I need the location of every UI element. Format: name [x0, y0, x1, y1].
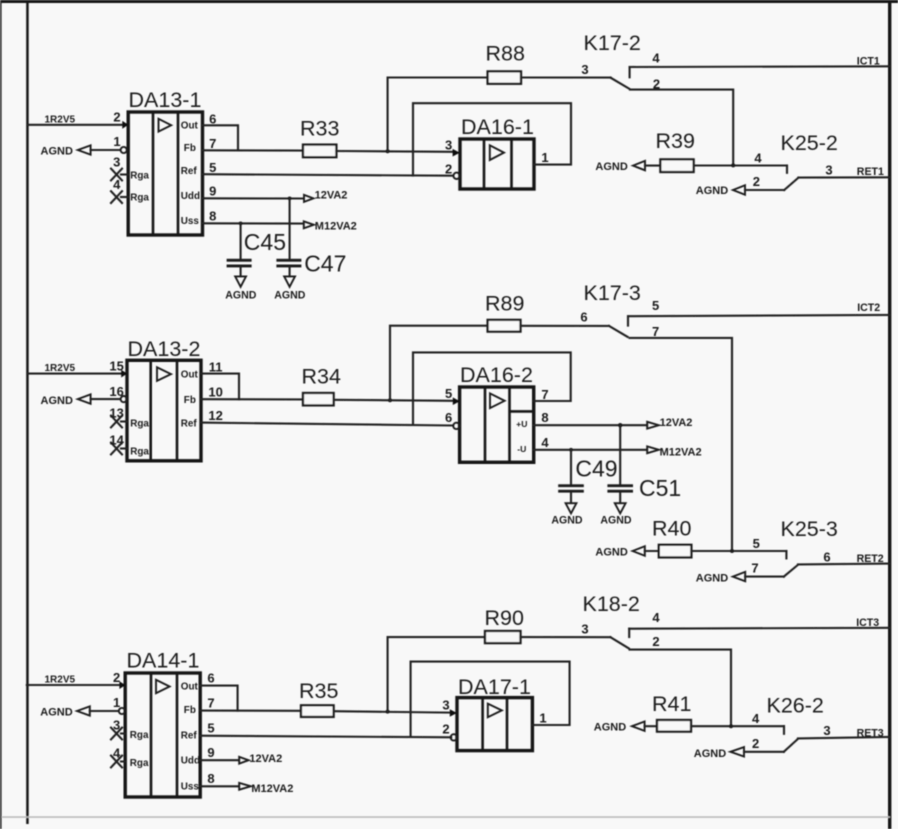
svg-text:RET3: RET3 [857, 727, 884, 739]
svg-text:Rga: Rga [130, 446, 149, 457]
wire R39 to K25-2 pin 4 [694, 150, 787, 173]
wire R41 to K26-2 pin 4 [691, 711, 784, 734]
node 1R2V5 wire to DA13-1 pin 2 [27, 110, 128, 129]
DA16-2 pin 5 input arrow [445, 386, 460, 405]
svg-text:12VA2: 12VA2 [249, 753, 282, 765]
DA13-1 pin 3 no-connect [111, 154, 128, 180]
svg-text:1: 1 [113, 134, 120, 149]
svg-text:1R2V5: 1R2V5 [45, 674, 76, 685]
resistor R35 [299, 679, 338, 717]
wire DA14-1 pin 9 Udd to 12VA2 [200, 745, 239, 760]
svg-text:1R2V5: 1R2V5 [45, 114, 76, 125]
svg-text:R40: R40 [652, 516, 691, 540]
svg-text:Udd: Udd [181, 191, 200, 202]
svg-text:R90: R90 [485, 606, 524, 630]
svg-text:Uss: Uss [181, 782, 200, 793]
op-amp U DA13-1 body [128, 88, 202, 235]
svg-text:Rga: Rga [130, 193, 149, 204]
wire DA13-2 pin 10 Fb to R34 [201, 385, 303, 400]
svg-text:AGND: AGND [225, 290, 257, 302]
wire DA16-2 pin 7 feedback loop [413, 352, 571, 424]
DA16-1 pin 2 inverting input [445, 161, 460, 179]
wire DA13-2 pin 11 Out down to Fb net [201, 359, 239, 399]
svg-text:10: 10 [208, 385, 222, 400]
node AGND wire to DA14-1 pin 1 [40, 695, 125, 718]
relay contact K25-2 [781, 131, 838, 190]
op-amp U DA14-1 body [125, 649, 200, 797]
svg-text:DA16-1: DA16-1 [461, 115, 534, 139]
svg-text:Out: Out [181, 681, 199, 692]
svg-text:K25-2: K25-2 [781, 131, 838, 155]
svg-text:C45: C45 [244, 229, 286, 255]
node AGND at K25-3 pin 7 [696, 561, 784, 585]
svg-text:3: 3 [113, 154, 120, 169]
node AGND at R39 [595, 161, 660, 173]
svg-text:5: 5 [445, 386, 452, 401]
svg-text:AGND: AGND [694, 748, 726, 760]
svg-text:7: 7 [652, 324, 659, 339]
svg-text:Rga: Rga [130, 758, 149, 769]
resistor R40 [652, 516, 691, 557]
wire Fb net up to R90 line [388, 637, 485, 712]
resistor R34 [302, 365, 341, 406]
svg-text:6: 6 [445, 410, 452, 425]
svg-text:6: 6 [823, 549, 830, 564]
svg-text:K26-2: K26-2 [767, 693, 824, 717]
resistor R39 [656, 129, 695, 172]
power flag M12VA2 (middle) [647, 446, 701, 458]
wire K17-3 pin 5 to ICT2 [628, 302, 890, 316]
wire R40 to K25-3 pin 5 [691, 536, 786, 559]
relay contact K17-3 [584, 281, 660, 339]
svg-text:2: 2 [445, 161, 452, 176]
svg-text:1: 1 [539, 710, 546, 725]
wire DA16-1 pin 1 feedback loop [413, 103, 571, 175]
svg-text:5: 5 [209, 160, 216, 175]
svg-text:7: 7 [751, 561, 758, 576]
svg-text:DA17-1: DA17-1 [458, 675, 531, 699]
ground AGND under C49 [551, 503, 583, 526]
DA13-2 pin 13 no-connect [109, 406, 127, 428]
wire K26-2 pin 3 to RET3 [798, 723, 890, 740]
ground AGND under C47 [274, 276, 306, 301]
DA17-1 pin 2 inverting input [442, 722, 457, 741]
svg-text:Ref: Ref [181, 731, 198, 742]
svg-text:1: 1 [541, 150, 548, 165]
op-amp U DA16-2 body [460, 363, 534, 462]
svg-text:Rga: Rga [130, 730, 149, 741]
svg-text:Out: Out [181, 120, 199, 131]
svg-text:R35: R35 [299, 679, 338, 703]
svg-text:8: 8 [541, 410, 548, 425]
wire K25-3 pin 6 to RET2 [798, 549, 890, 565]
svg-text:AGND: AGND [41, 395, 73, 407]
resistor R88 [486, 41, 525, 84]
svg-text:Fb: Fb [184, 143, 196, 154]
svg-text:5: 5 [207, 721, 214, 736]
svg-text:Ref: Ref [181, 166, 198, 177]
node 1R2V5 wire to DA13-2 pin 15 [27, 359, 127, 378]
svg-text:4: 4 [754, 150, 762, 165]
wire DA13-1 pin 6 Out down to Fb net [203, 111, 239, 150]
wire DA14-1 pin 7 Fb to R35 [200, 695, 301, 710]
svg-text:R88: R88 [486, 41, 525, 65]
node AGND at R41 [594, 721, 657, 733]
svg-text:Rga: Rga [130, 419, 149, 430]
wire R88 to K17-2 pin 3 [521, 62, 611, 78]
svg-text:3: 3 [581, 62, 588, 77]
svg-text:6: 6 [207, 670, 214, 685]
svg-text:8: 8 [207, 771, 214, 786]
border frame left outer edge [0, 0, 2, 829]
power flag 12VA2 (bottom) [239, 753, 282, 765]
op-amp U DA17-1 body [457, 675, 532, 751]
svg-text:4: 4 [541, 435, 549, 450]
svg-text:R89: R89 [485, 291, 524, 315]
node 1R2V5 wire to DA14-1 pin 2 [27, 670, 126, 689]
wire R33 to DA16-1 pin 3 with junction to R88 [336, 149, 452, 153]
svg-text:AGND: AGND [594, 721, 626, 733]
svg-text:C51: C51 [639, 475, 681, 501]
svg-text:AGND: AGND [600, 514, 632, 526]
op-amp U DA16-1 body [460, 115, 534, 189]
wire DA13-2 pin 12 Ref to DA16-2 pin 6 [201, 408, 453, 426]
svg-text:AGND: AGND [40, 706, 72, 718]
DA14-1 pin 4 no-connect [111, 746, 125, 768]
svg-text:Fb: Fb [184, 395, 196, 406]
svg-text:Ref: Ref [181, 418, 198, 429]
svg-text:AGND: AGND [696, 185, 728, 197]
svg-text:7: 7 [207, 695, 214, 710]
wire K17-3 pin 7 down to R40 net [630, 338, 732, 551]
svg-text:DA13-2: DA13-2 [128, 337, 201, 361]
node AGND at K26-2 pin 2 [694, 736, 784, 760]
border frame inner left rule [26, 3, 29, 824]
svg-text:15: 15 [109, 359, 123, 374]
svg-text:RET2: RET2 [857, 553, 884, 565]
ground AGND under C51 [600, 503, 632, 526]
svg-text:Uss: Uss [181, 216, 200, 227]
svg-text:Fb: Fb [184, 705, 196, 716]
border frame right rule [888, 0, 891, 829]
relay contact K25-3 [781, 517, 838, 577]
wire DA14-1 pin 6 Out down to Fb net [200, 670, 237, 710]
svg-text:AGND: AGND [595, 161, 627, 173]
wire K17-2 pin 4 to ICT1 [630, 56, 890, 68]
power flag M12VA2 (top) [304, 221, 357, 233]
svg-text:Out: Out [181, 369, 199, 380]
node AGND at K25-2 pin 2 [696, 174, 784, 197]
svg-text:ICT3: ICT3 [856, 617, 879, 629]
svg-text:+U: +U [516, 419, 527, 429]
svg-text:AGND: AGND [595, 547, 627, 559]
svg-text:K25-3: K25-3 [781, 517, 838, 541]
node AGND wire to DA13-1 pin 1 [41, 134, 127, 158]
border frame top [0, 0, 898, 3]
svg-text:11: 11 [209, 359, 223, 374]
wire R35 to DA17-1 pin 3 with junction to R90 [334, 710, 450, 714]
svg-text:DA16-2: DA16-2 [460, 363, 533, 387]
DA16-1 pin 3 input arrow [445, 138, 460, 157]
DA14-1 pin 3 no-connect [111, 718, 125, 740]
svg-text:R34: R34 [302, 365, 341, 389]
DA13-1 pin 4 no-connect [111, 177, 128, 203]
wire DA13-1 pin 9 Udd to 12VA2 [203, 184, 304, 201]
svg-text:AGND: AGND [551, 514, 583, 526]
svg-text:Rga: Rga [130, 170, 149, 181]
svg-text:16: 16 [109, 384, 123, 399]
node AGND wire to DA13-2 pin 16 [41, 384, 127, 407]
svg-text:R33: R33 [300, 117, 339, 141]
resistor R90 [485, 606, 524, 643]
wire DA16-2 pin 4 to M12VA2 [534, 435, 647, 452]
relay contact K26-2 [767, 693, 824, 751]
svg-text:8: 8 [209, 209, 216, 224]
svg-text:7: 7 [209, 136, 216, 151]
svg-text:-U: -U [517, 444, 526, 454]
svg-text:ICT1: ICT1 [857, 56, 880, 68]
svg-text:K17-3: K17-3 [584, 281, 641, 305]
wire DA13-1 pin 7 Fb to R33 [203, 136, 304, 151]
svg-text:12VA2: 12VA2 [315, 189, 348, 201]
resistor R41 [652, 692, 691, 731]
svg-text:M12VA2: M12VA2 [315, 221, 357, 233]
svg-text:9: 9 [207, 745, 214, 760]
svg-text:3: 3 [823, 723, 830, 738]
svg-text:1: 1 [113, 695, 120, 710]
svg-text:2: 2 [113, 110, 120, 125]
svg-text:R39: R39 [656, 129, 695, 153]
wire R90 to K18-2 pin 3 [521, 621, 611, 637]
svg-text:M12VA2: M12VA2 [251, 783, 293, 795]
svg-text:C47: C47 [304, 251, 346, 277]
svg-text:3: 3 [113, 718, 120, 733]
svg-text:4: 4 [752, 711, 760, 726]
power flag 12VA2 (middle) [647, 417, 692, 429]
wire Fb net up to R89 line [390, 326, 488, 401]
wire DA14-1 pin 8 Uss to M12VA2 [200, 771, 239, 786]
capacitor C47 [276, 198, 346, 276]
svg-text:ICT2: ICT2 [857, 302, 880, 314]
DA13-2 pin 14 no-connect [109, 433, 127, 455]
svg-text:DA14-1: DA14-1 [127, 649, 200, 673]
capacitor C45 [227, 223, 286, 276]
op-amp U DA13-2 body [127, 337, 201, 461]
svg-text:2: 2 [652, 634, 659, 649]
DA17-1 pin 3 input arrow [442, 697, 456, 716]
resistor R33 [300, 117, 339, 158]
svg-text:9: 9 [209, 184, 216, 199]
svg-text:4: 4 [113, 177, 121, 192]
relay contact K18-2 [583, 592, 661, 649]
svg-text:3: 3 [442, 697, 449, 712]
svg-text:AGND: AGND [274, 290, 306, 302]
wire K17-2 pin 2 down to R39 net [630, 90, 733, 166]
border frame bottom faint rule [2, 816, 890, 818]
svg-text:7: 7 [541, 387, 548, 402]
DA16-2 pin 6 inverting input [445, 410, 460, 429]
power flag M12VA2 (bottom) [239, 783, 293, 795]
svg-text:12VA2: 12VA2 [660, 417, 693, 429]
svg-text:M12VA2: M12VA2 [660, 446, 702, 458]
capacitor C51 [607, 425, 681, 503]
wire Fb net up to R88 line [388, 78, 488, 152]
svg-text:2: 2 [753, 174, 760, 189]
svg-text:RET1: RET1 [857, 166, 884, 178]
wire DA16-2 pin 8 to 12VA2 [534, 410, 647, 427]
wire R89 to K17-3 pin 6 [521, 309, 610, 326]
resistor R89 [485, 291, 524, 331]
node AGND at R40 [595, 546, 658, 558]
wire DA13-1 pin 5 Ref to DA16-1 pin 2 [203, 160, 454, 176]
svg-text:14: 14 [109, 433, 124, 448]
svg-text:2: 2 [442, 722, 449, 737]
svg-text:C49: C49 [575, 455, 617, 481]
svg-text:12: 12 [208, 408, 222, 423]
svg-text:6: 6 [580, 309, 587, 324]
svg-text:3: 3 [825, 163, 832, 178]
wire K18-2 pin 4 to ICT3 [629, 617, 889, 629]
wire R34 to DA16-2 pin 5 with junction to R89 [334, 398, 453, 402]
svg-text:13: 13 [109, 406, 123, 421]
ground AGND under C45 [225, 276, 257, 301]
svg-text:R41: R41 [652, 692, 691, 716]
svg-text:K18-2: K18-2 [583, 592, 640, 616]
svg-text:4: 4 [113, 746, 121, 761]
svg-text:4: 4 [652, 50, 660, 65]
svg-text:4: 4 [652, 610, 660, 625]
capacitor C49 [558, 450, 617, 503]
svg-text:K17-2: K17-2 [584, 31, 641, 55]
svg-text:5: 5 [753, 536, 760, 551]
wire DA13-1 pin 8 Uss to M12VA2 [203, 209, 304, 226]
wire K25-2 pin 3 to RET1 [798, 163, 889, 179]
svg-text:AGND: AGND [696, 572, 728, 584]
svg-text:3: 3 [445, 138, 452, 153]
svg-text:2: 2 [752, 736, 759, 751]
svg-text:6: 6 [209, 111, 216, 126]
svg-text:3: 3 [581, 621, 588, 636]
power flag 12VA2 (top) [304, 189, 347, 202]
svg-text:Udd: Udd [181, 755, 200, 766]
wire DA17-1 pin 1 feedback loop [411, 662, 570, 737]
svg-text:2: 2 [113, 670, 120, 685]
svg-text:AGND: AGND [41, 146, 73, 158]
wire K18-2 pin 2 down to R41 net [630, 650, 731, 727]
svg-text:5: 5 [652, 298, 659, 313]
relay contact K17-2 [584, 31, 661, 92]
svg-text:1R2V5: 1R2V5 [45, 363, 76, 374]
svg-text:DA13-1: DA13-1 [129, 88, 202, 112]
wire DA14-1 pin 5 Ref to DA17-1 pin 2 [200, 721, 451, 738]
